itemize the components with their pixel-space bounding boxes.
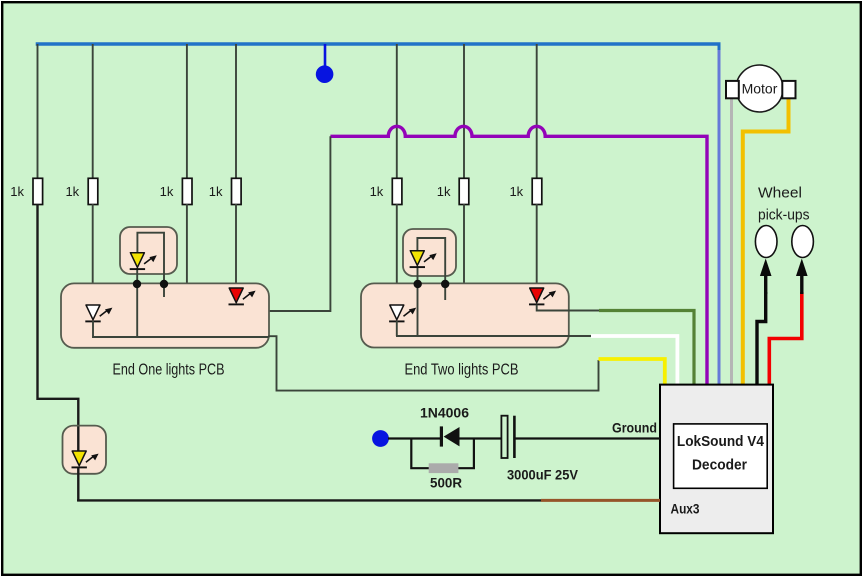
wire drop to resistor R1	[37, 44, 39, 179]
wire drop to resistor R6	[463, 44, 465, 179]
wire End One rail to yellow lead	[269, 336, 599, 390]
svg-text:3000uF 25V: 3000uF 25V	[507, 467, 579, 483]
wire D2 cathode to rail	[92, 321, 94, 338]
decoder U1 body	[660, 385, 773, 534]
resistor R7	[532, 178, 542, 204]
PCB End Two yellow-LED pod	[403, 229, 456, 276]
PCB End One yellow-LED pod	[120, 227, 177, 274]
wire R3 to node A jog	[164, 204, 187, 297]
wire diode to capacitor	[460, 437, 502, 439]
resistor R8 500R parallel loop	[411, 439, 474, 469]
svg-text:1N4006: 1N4006	[420, 405, 469, 421]
wire purple-net drop to red LED D3 cathode	[236, 136, 330, 311]
motor M1 left brush terminal	[726, 81, 739, 98]
LED D8 yellow cab lamp	[72, 451, 99, 467]
svg-text:pick-ups: pick-ups	[758, 207, 810, 224]
wire D1 cathode through pod to rail	[136, 268, 138, 338]
node pin dot 2	[160, 280, 168, 288]
wire Aux3 return black run	[77, 499, 541, 501]
wire R5 to white LED D5	[396, 204, 398, 306]
wheel pickup right	[792, 226, 814, 258]
wire D4 cathode through pod to rail	[417, 266, 419, 337]
svg-text:Ground: Ground	[612, 420, 657, 436]
LED D3 red	[229, 288, 256, 304]
wire R7 to red LED D6	[536, 204, 538, 289]
capacitor C1 left plate	[501, 416, 507, 458]
wheel pickup left	[755, 226, 777, 258]
svg-text:Motor: Motor	[742, 81, 778, 97]
LED D2 white	[85, 305, 112, 321]
resistor R5	[392, 178, 402, 204]
LED D1 yellow	[130, 253, 157, 269]
LED D6 red	[529, 288, 556, 304]
svg-text:Aux3: Aux3	[671, 501, 700, 517]
wire R1 down to cab lamp	[38, 204, 79, 427]
wire white Aux to decoder	[591, 336, 677, 385]
motor M1 right brush terminal	[782, 81, 795, 98]
wire drop to resistor R4	[235, 44, 237, 179]
wire gray motor lead to decoder	[730, 98, 733, 385]
wire black track pickup lead to decoder	[757, 292, 766, 385]
PCB End One board	[61, 283, 269, 347]
motor M1 body	[736, 65, 783, 112]
svg-text:LokSound V4: LokSound V4	[677, 433, 765, 450]
wire drop to resistor R5	[396, 44, 398, 179]
svg-text:1k: 1k	[160, 184, 174, 199]
wire D4 anode loop	[417, 238, 445, 300]
node blue ground-net junction	[372, 430, 389, 447]
cab lamp pod	[63, 426, 107, 474]
wire drop to resistor R7	[536, 44, 538, 179]
node pin dot 4	[441, 280, 449, 288]
wire red track pickup lead to decoder	[769, 292, 802, 385]
wire ground net to diode	[388, 437, 440, 439]
wire R4 to red LED D3	[235, 204, 237, 289]
wire cab lamp cathode down	[77, 468, 79, 501]
wire Aux3 brown lead to decoder	[541, 499, 660, 502]
wire into cab lamp	[77, 427, 79, 452]
svg-text:Wheel: Wheel	[758, 185, 802, 202]
LED D5 white	[389, 305, 416, 321]
svg-text:1k: 1k	[209, 184, 223, 199]
arrow to right pickup	[800, 272, 803, 294]
wire yellow Aux to decoder	[599, 359, 665, 385]
wire orange motor lead to decoder	[743, 98, 789, 385]
wire End Two ground rail	[396, 335, 591, 337]
node blue junction on bus	[316, 65, 334, 83]
diode D7 1N4006 body	[444, 427, 460, 446]
wire blue DCC bus (top horizontal)	[36, 42, 721, 45]
wire drop to resistor R3	[186, 44, 188, 179]
resistor R6	[459, 178, 469, 204]
wire drop to resistor R2	[92, 44, 94, 179]
wire End One ground rail	[92, 336, 268, 338]
svg-text:End One lights PCB: End One lights PCB	[113, 362, 225, 379]
resistor R3	[182, 178, 192, 204]
svg-text:1k: 1k	[437, 184, 451, 199]
node pin dot 3	[414, 280, 422, 288]
wire cornflower blue common to decoder	[718, 50, 721, 385]
svg-text:1k: 1k	[509, 184, 523, 199]
wire R2 to white LED D2	[92, 204, 94, 306]
diode D7 1N4006 cathode bar	[440, 426, 443, 446]
resistor R8 500R body	[429, 463, 459, 473]
svg-text:500R: 500R	[430, 475, 462, 491]
resistor R1	[33, 178, 43, 204]
capacitor C1 right plate	[513, 416, 516, 458]
svg-text:1k: 1k	[65, 184, 79, 199]
svg-text:End Two lights PCB: End Two lights PCB	[405, 362, 519, 379]
wire capacitor to decoder Ground pin	[516, 437, 661, 439]
wire D6 cathode to green lead	[537, 305, 600, 311]
resistor R2	[88, 178, 98, 204]
node pin dot 1	[133, 280, 141, 288]
LED D4 yellow	[410, 251, 437, 267]
svg-text:Decoder: Decoder	[692, 457, 747, 474]
wire green Aux to decoder	[599, 311, 694, 385]
arrow to left pickup	[764, 272, 767, 294]
svg-text:1k: 1k	[10, 184, 24, 199]
decoder U1 name plate	[674, 424, 768, 488]
wire R6 to node B jog	[445, 204, 464, 300]
wire purple Aux net with hops	[330, 126, 707, 384]
PCB End Two board	[361, 283, 569, 347]
wire D1 anode loop	[137, 233, 164, 297]
resistor R4	[232, 178, 242, 204]
wire blue stub to node	[324, 44, 327, 68]
svg-text:1k: 1k	[370, 184, 384, 199]
wire D5 cathode to rail	[396, 321, 398, 336]
wire blue bus corner stub	[718, 44, 721, 50]
